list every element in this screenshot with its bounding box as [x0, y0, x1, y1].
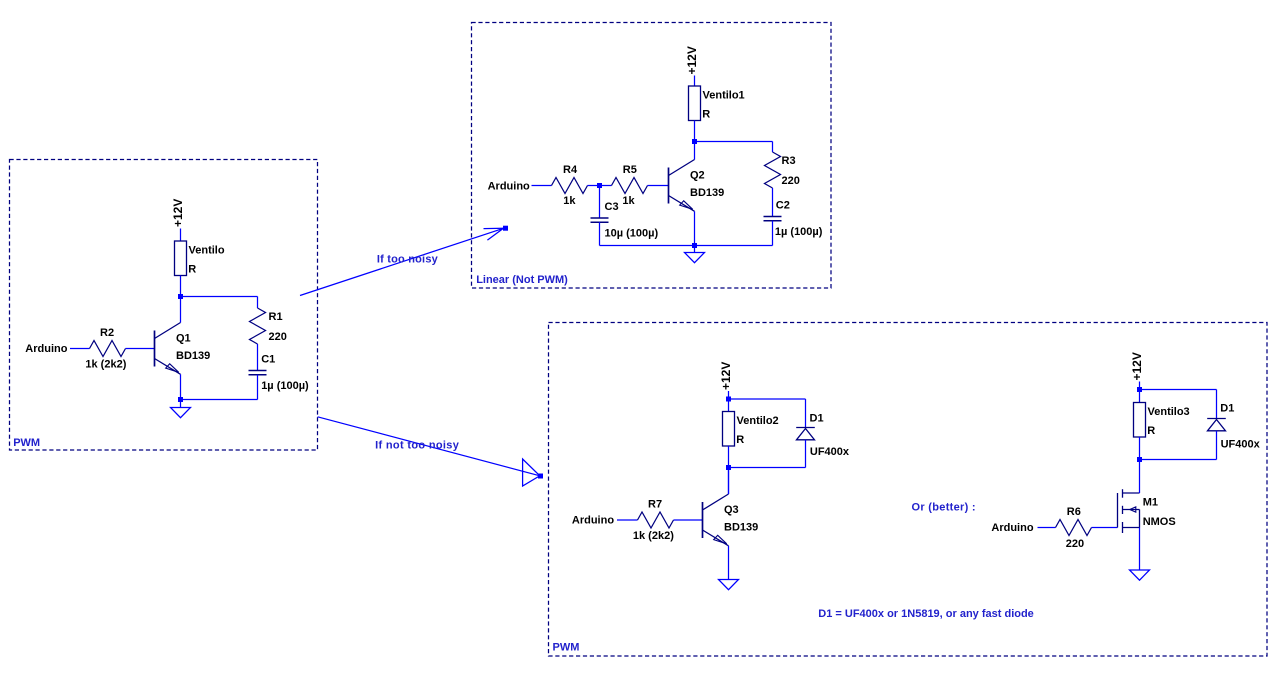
resistor R1 [250, 308, 266, 344]
svg-text:If not too noisy: If not too noisy [375, 440, 460, 452]
svg-text:Ventilo: Ventilo [189, 245, 225, 257]
wire R1 to C1 [257, 344, 259, 371]
wire C1 bottom to emitter node [181, 399, 258, 401]
wire node to Ventilo2 [728, 399, 730, 412]
svg-text:Arduino: Arduino [572, 515, 614, 527]
annotation arrow If too noisy [300, 228, 504, 295]
wire down to D1 (NMOS) [1216, 390, 1218, 419]
wire to ground [694, 246, 696, 253]
svg-text:D1 = UF400x or 1N5819, or any: D1 = UF400x or 1N5819, or any fast diode [818, 608, 1034, 620]
bottom rail (linear) [600, 245, 773, 247]
node emitter/ground junction [692, 243, 697, 248]
node top junction NMOS branch [1137, 387, 1142, 392]
ground (M1) [1130, 570, 1150, 580]
svg-text:M1: M1 [1143, 497, 1158, 509]
wire node to R5 [600, 185, 612, 187]
node emitter junction Q1 [178, 397, 183, 402]
wire Q2 emitter down [694, 211, 696, 245]
svg-text:R: R [188, 264, 196, 276]
svg-text:BD139: BD139 [724, 521, 758, 533]
diode D1 (NMOS branch) [1207, 419, 1226, 431]
wire Q3 collector up [728, 468, 730, 495]
wire node down to C3 [599, 186, 601, 219]
node collector junction Q3 [726, 465, 731, 470]
ground (Q3) [719, 580, 739, 590]
wire node to Q3 collector [728, 468, 730, 495]
svg-text:+12V: +12V [1130, 352, 1144, 380]
wire R5 to Q2 base [648, 185, 669, 187]
resistor Ventilo (fan load) [175, 241, 187, 276]
svg-text:R6: R6 [1067, 506, 1081, 518]
diode D1 (Q3 branch) [796, 428, 815, 440]
svg-text:1µ (100µ): 1µ (100µ) [775, 226, 823, 238]
arrow endpoint node 2 [538, 474, 543, 479]
svg-text:R1: R1 [269, 311, 283, 323]
svg-text:Q1: Q1 [176, 333, 191, 345]
svg-text:Or (better) :: Or (better) : [912, 502, 976, 514]
wire M1 drain up [1139, 460, 1141, 494]
resistor R5 [612, 178, 648, 194]
transistor Q2 BD139 NPN [669, 160, 695, 212]
svg-text:R3: R3 [782, 155, 796, 167]
bottom rail to node (NMOS) [1140, 459, 1217, 461]
wire Ventilo to collector node [180, 276, 182, 297]
dashed frame PWM box 1 [10, 160, 318, 451]
svg-text:If too noisy: If too noisy [377, 254, 439, 266]
svg-text:BD139: BD139 [176, 350, 210, 362]
svg-text:1k: 1k [622, 195, 635, 207]
wire node to R3 [695, 141, 773, 143]
wire Arduino to R6 [1038, 527, 1056, 529]
svg-text:Linear (Not PWM): Linear (Not PWM) [476, 274, 568, 286]
arrow endpoint node [503, 226, 508, 231]
resistor Ventilo2 (fan load) [723, 412, 735, 447]
wire +12V to Ventilo [180, 229, 182, 242]
svg-text:Ventilo2: Ventilo2 [737, 415, 779, 427]
wire node to Ventilo3 [1139, 390, 1141, 403]
wire Q2 collector up [694, 142, 696, 160]
svg-text:+12V: +12V [685, 46, 699, 74]
resistor Ventilo3 (fan load) [1134, 403, 1146, 438]
svg-text:PWM: PWM [553, 642, 580, 654]
wire top rail to D1 (NMOS) [1140, 389, 1217, 391]
wire down to D1 [805, 399, 807, 428]
svg-text:+12V: +12V [171, 199, 185, 227]
svg-text:R5: R5 [623, 164, 637, 176]
wire +12V to Ventilo1 [694, 76, 696, 87]
ground (left box) [171, 408, 191, 418]
svg-text:Q3: Q3 [724, 504, 739, 516]
resistor Ventilo1 (fan load) [689, 86, 701, 121]
wire C3 to bottom rail [599, 222, 601, 245]
svg-text:Arduino: Arduino [488, 181, 530, 193]
node R4/R5/C3 junction [597, 183, 602, 188]
wire Ventilo1 to node [694, 121, 696, 142]
transistor Q1 BD139 NPN [155, 323, 181, 375]
svg-text:+12V: +12V [719, 362, 733, 390]
node collector junction Q2 [692, 139, 697, 144]
wire to R1 [257, 297, 259, 309]
svg-text:D1: D1 [810, 413, 824, 425]
svg-text:UF400x: UF400x [1221, 438, 1261, 450]
svg-text:Q2: Q2 [690, 170, 705, 182]
wire Arduino to R7 [617, 519, 638, 521]
node drain junction M1 [1137, 457, 1142, 462]
node top junction Q3 branch [726, 397, 731, 402]
svg-text:R4: R4 [563, 164, 578, 176]
svg-text:R: R [1147, 425, 1155, 437]
svg-text:R2: R2 [100, 327, 114, 339]
wire R2 to Q1 base [126, 348, 155, 350]
svg-text:Ventilo3: Ventilo3 [1148, 406, 1190, 418]
wire R4 to node [588, 185, 600, 187]
svg-text:PWM: PWM [13, 437, 40, 449]
wire down to R3 [772, 142, 774, 153]
capacitor C3 [591, 217, 609, 219]
svg-text:R: R [702, 109, 710, 121]
wire C2 to bottom rail [772, 221, 774, 246]
svg-text:C1: C1 [261, 354, 275, 366]
svg-text:1k (2k2): 1k (2k2) [85, 359, 126, 371]
wire C1 to emitter rail [257, 375, 259, 400]
svg-text:10µ (100µ): 10µ (100µ) [605, 228, 659, 240]
wire D1 to bottom rail (NMOS) [1216, 431, 1218, 460]
svg-text:Ventilo1: Ventilo1 [703, 90, 745, 102]
svg-text:220: 220 [782, 175, 800, 187]
wire Q1 collector up [180, 297, 182, 323]
wire R7 to Q3 base [674, 519, 703, 521]
wire Q1 emitter down [180, 374, 182, 399]
dashed frame PWM box 2 [549, 323, 1268, 657]
bottom rail to node [729, 467, 806, 469]
svg-text:220: 220 [1066, 538, 1084, 550]
svg-text:C3: C3 [605, 201, 619, 213]
wire Arduino to R4 [532, 185, 552, 187]
wire D1 to bottom rail [805, 440, 807, 468]
ground (linear box) [685, 253, 705, 263]
resistor R2 [90, 341, 126, 357]
wire to ground [180, 400, 182, 408]
dashed frame Linear box [472, 23, 832, 289]
svg-text:1k (2k2): 1k (2k2) [633, 530, 674, 542]
wire Arduino to R2 [70, 348, 90, 350]
svg-text:UF400x: UF400x [810, 446, 850, 458]
wire node to R1 top [181, 296, 258, 298]
wire Ventilo2 to node [728, 446, 730, 468]
resistor R7 [638, 512, 674, 528]
svg-text:BD139: BD139 [690, 187, 724, 199]
wire +12V to node [1139, 382, 1141, 390]
wire R6 to M1 gate [1092, 527, 1118, 529]
svg-text:1µ (100µ): 1µ (100µ) [261, 380, 309, 392]
wire top rail to D1 [729, 398, 806, 400]
wire Q3 emitter down [728, 546, 730, 580]
wire +12V to node [728, 391, 730, 399]
transistor Q3 BD139 NPN [703, 494, 729, 546]
wire M1 source down [1139, 528, 1141, 571]
svg-text:R7: R7 [648, 498, 662, 510]
wire Ventilo3 to node [1139, 437, 1141, 460]
svg-text:Arduino: Arduino [991, 522, 1033, 534]
annotation arrow If not too noisy [318, 417, 540, 486]
node collector junction Q1 [178, 294, 183, 299]
svg-text:NMOS: NMOS [1143, 516, 1176, 528]
svg-text:Arduino: Arduino [25, 343, 67, 355]
capacitor C2 [764, 216, 782, 218]
svg-text:220: 220 [269, 331, 287, 343]
resistor R3 [765, 152, 781, 188]
svg-text:1k: 1k [563, 195, 576, 207]
svg-text:R: R [736, 434, 744, 446]
svg-text:C2: C2 [776, 200, 790, 212]
resistor R4 [552, 178, 588, 194]
wire R3 to C2 [772, 188, 774, 217]
resistor R6 [1056, 520, 1092, 536]
capacitor C1 [249, 370, 267, 372]
transistor M1 NMOS [1118, 489, 1140, 533]
svg-text:D1: D1 [1220, 402, 1234, 414]
